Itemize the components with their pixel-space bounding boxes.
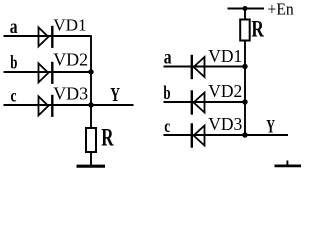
wire b (right) <box>164 101 246 103</box>
label VD2 (right) <box>208 81 242 101</box>
svg-text:R: R <box>101 123 114 151</box>
label VD2 <box>53 50 88 70</box>
node b (input label, right circuit) <box>163 83 170 104</box>
label Y (left output) <box>110 83 120 105</box>
diode VD2 (right, pointing left) <box>192 90 205 114</box>
label Y (right output) <box>266 117 275 137</box>
wire c / output wire to Y <box>4 104 134 106</box>
junction / node Y (left) <box>88 102 93 107</box>
svg-text:Y: Y <box>110 83 120 105</box>
wire a (right) <box>164 66 246 68</box>
diode VD3 (right, pointing left) <box>192 123 205 147</box>
wire: output Y (right) <box>245 134 288 136</box>
wire b <box>4 71 92 73</box>
svg-text:VD3: VD3 <box>53 84 88 104</box>
junction at b row <box>88 69 93 74</box>
svg-text:c: c <box>164 117 170 136</box>
wire: resistor to ground (left) <box>90 152 92 165</box>
junction at a row (right) <box>242 64 247 69</box>
diode VD2 <box>39 62 53 84</box>
svg-text:c: c <box>11 87 17 106</box>
svg-text:b: b <box>10 52 17 73</box>
wire: ground stub (right) <box>286 161 288 166</box>
diode VD1 (right, pointing left) <box>192 55 205 79</box>
svg-text:Y: Y <box>266 117 275 137</box>
node a (input label, left circuit) <box>10 15 18 37</box>
svg-text:R: R <box>251 17 264 42</box>
svg-text:b: b <box>163 83 170 104</box>
label VD3 <box>53 84 88 104</box>
node a (input label, right circuit) <box>164 46 172 68</box>
diode VD1 <box>39 26 53 48</box>
wire: common bus, left circuit (corner from row a down to row c) <box>90 35 92 105</box>
junction / node Y (right) <box>242 132 247 137</box>
svg-text:VD1: VD1 <box>208 46 242 66</box>
resistor R (right) <box>240 20 250 41</box>
junction at supply <box>243 6 248 11</box>
svg-text:VD2: VD2 <box>208 81 242 101</box>
node b (input label, left circuit) <box>10 52 17 73</box>
svg-text:+En: +En <box>268 1 294 18</box>
label R (left) <box>101 123 114 151</box>
wire: supply to resistor R (right) <box>244 9 246 20</box>
ground (right) <box>275 164 302 167</box>
svg-text:a: a <box>10 15 18 37</box>
svg-text:a: a <box>164 46 172 68</box>
wire: common bus, right circuit <box>244 41 246 136</box>
svg-text:VD3: VD3 <box>208 114 242 134</box>
diode VD3 <box>39 95 53 117</box>
node c (input label, left circuit) <box>11 87 17 106</box>
ground (left) <box>77 165 106 168</box>
node +En (supply label) <box>268 1 294 18</box>
label VD3 (right) <box>208 114 242 134</box>
svg-text:VD1: VD1 <box>53 15 86 34</box>
node c (input label, right circuit) <box>164 117 170 136</box>
wire c (right) <box>164 134 246 136</box>
wire: +En supply rail <box>228 8 265 10</box>
resistor R (left) <box>86 128 96 152</box>
label R (right) <box>251 17 264 42</box>
wire a <box>4 35 92 37</box>
wire: junction to resistor R (left) <box>90 105 92 128</box>
label VD1 <box>53 15 86 34</box>
svg-text:VD2: VD2 <box>53 50 88 70</box>
junction at b row (right) <box>242 99 247 104</box>
label VD1 (right) <box>208 46 242 66</box>
